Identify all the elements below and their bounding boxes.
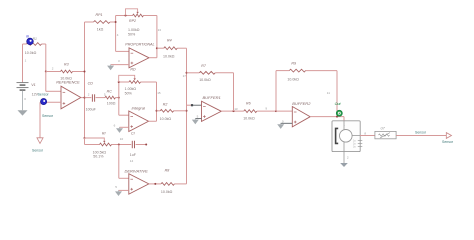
junction bottom branch [84,137,86,139]
junction RP1 [115,21,117,23]
capacitor CD [91,94,93,101]
heater top pin [343,121,345,130]
heater bracket [336,128,339,143]
svg-text:10.0kΩ: 10.0kΩ [160,117,172,121]
node junction 1 [45,71,47,73]
junction node 10 [118,144,120,146]
svg-text:13: 13 [158,28,162,32]
svg-text:15: 15 [157,91,161,95]
junction R2 line [156,110,158,112]
junction buffer2 input [275,110,277,112]
off-page connector Sensor right arrow [446,133,451,139]
op-amp BUFFER2 [292,107,310,127]
wire reference plus input [40,101,61,103]
potentiometer RI [100,143,112,146]
resistor RC [105,96,115,99]
svg-text:50.1%: 50.1% [93,155,104,159]
ground buffer1 [194,119,196,120]
svg-text:11: 11 [327,91,330,95]
svg-text:U7: U7 [381,127,385,131]
wire derivative output [149,183,161,185]
wire R9 left vertical [275,71,277,112]
resistor R1 [27,43,42,46]
svg-text:CI: CI [131,132,135,136]
wire battery bottom [22,91,24,111]
svg-text:R4: R4 [167,38,172,42]
wire RD right vertical [156,82,158,121]
wire U7 to sensor arrow [396,135,446,137]
svg-text:R9: R9 [291,62,296,66]
op-amp Integral [129,111,149,132]
resistor R3 [61,70,73,73]
wire buffer1 output [221,110,244,112]
junction out node [336,116,338,118]
svg-text:R2: R2 [163,102,168,106]
svg-text:BUFFER2: BUFFER2 [292,101,311,106]
wire sensor down [39,102,41,137]
ground derivative [118,190,120,191]
wire RC to junction [115,97,118,99]
op-amp PROPORTIONAL [129,48,149,68]
wire heater to U7 node 8 [360,135,375,137]
wire RD line [119,81,129,83]
svg-text:Sensor: Sensor [415,131,427,135]
wire buffer1 minus [187,104,193,106]
junction derivative output [154,183,156,185]
thermistor U7 body [379,134,390,136]
resistor R4 [164,47,177,50]
svg-text:10: 10 [120,137,124,141]
svg-text:Sensor: Sensor [38,92,50,96]
svg-text:Sensor: Sensor [442,140,454,144]
wire integral input vertical [118,82,120,115]
svg-text:10.0kΩ: 10.0kΩ [287,77,299,81]
wire R9 line [276,70,289,72]
ground prop [110,65,112,66]
svg-text:1kΩ: 1kΩ [97,27,104,31]
junction R3-rail [84,71,86,73]
svg-text:RP1: RP1 [96,13,103,17]
junction R2 tap [186,110,188,112]
junction R4 tap [156,47,158,49]
svg-text:1uF: 1uF [130,153,137,157]
svg-text:14: 14 [130,159,134,163]
svg-text:In: In [26,34,29,38]
resistor R8 [161,183,174,186]
junction CI stub end [145,144,147,146]
wire integral output [149,120,157,122]
svg-text:10.0kΩ: 10.0kΩ [161,190,173,194]
svg-text:RC: RC [107,89,113,93]
junction R7 feedback right [233,110,235,112]
wire buffer2 output [310,116,344,118]
resistor RP1 [94,21,111,24]
wire derivative input vertical [118,145,120,179]
svg-text:R6: R6 [246,102,251,106]
resistor R9 [289,69,305,72]
wire R7 feedback vertical [233,73,235,111]
wire CI stub [136,144,147,146]
wire R9 right vertical node 11 [336,71,338,117]
wire bottom line [85,144,100,146]
op-amp U REFERENCE [61,86,81,109]
svg-text:DERIVATIVE: DERIVATIVE [125,168,149,173]
svg-text:R1: R1 [33,37,37,41]
junction integral input [118,97,120,99]
svg-text:50%: 50% [128,32,136,36]
potentiometer RP2 [133,14,144,17]
resistor R7 [199,71,215,74]
junction R7 tap [186,72,188,74]
wire R3 line [46,71,61,73]
svg-text:Sensor: Sensor [32,149,44,153]
off-page connector Sensor down arrow [37,138,43,144]
wire RP2 right vertical [156,16,158,58]
wire buffer1 plus [195,118,201,120]
wire integral plus [120,126,129,128]
wire prop plus [111,64,129,66]
wire derivative plus [119,189,129,191]
wire into heater top [343,117,345,121]
wire battery top [22,44,24,82]
heater component box A1 [332,121,360,152]
op-amp BUFFER1 [202,101,222,121]
svg-text:RI: RI [102,131,106,135]
resistor R2 [160,109,173,112]
probe Out (green) [336,110,342,116]
wire R2 line [157,110,161,112]
wire prop minus [116,50,129,52]
svg-text:10.0kΩ: 10.0kΩ [199,78,211,82]
heater circle [340,130,353,143]
wire prop input vertical [115,16,117,52]
battery V1 [17,82,29,84]
wire R7 line [187,72,200,74]
svg-text:17: 17 [183,74,187,78]
buffer1 minus pin [192,104,202,106]
heater right pin [352,135,360,137]
probe In (blue) [27,38,34,45]
wire reference output [81,97,85,99]
svg-text:REFERENCE: REFERENCE [56,81,80,85]
wire R4 line [157,47,164,49]
wire reference minus input [45,72,47,92]
svg-text:10.0kΩ: 10.0kΩ [163,54,175,58]
svg-text:10.0kΩ: 10.0kΩ [243,117,255,121]
wire rail to CD [85,97,92,99]
wire R1 top line [23,43,27,45]
summing vertical node 17 [186,48,188,184]
svg-text:13: 13 [234,107,238,111]
svg-text:10.0kΩ: 10.0kΩ [25,51,37,55]
capacitor CI [131,141,133,148]
svg-text:CD: CD [88,82,94,86]
ground main arrow [18,110,28,115]
svg-text:Sensor: Sensor [42,114,54,118]
main left vertical rail [84,22,86,145]
wire RP2 line [116,15,133,17]
svg-text:RP2: RP2 [129,19,136,23]
potentiometer RD [129,81,141,84]
svg-text:Integral: Integral [132,106,145,111]
probe Sensor (blue) [41,99,47,105]
wire prop output [149,57,157,59]
svg-text:BUFFER1: BUFFER1 [203,95,221,100]
svg-text:R3: R3 [64,63,69,67]
resistor R6 [244,110,257,113]
wire RP1 line [85,21,94,23]
ground integral [119,127,121,128]
svg-text:V1: V1 [31,83,35,87]
heater ground arrow [340,163,348,167]
heater aux pins [358,140,363,142]
svg-text:R8: R8 [165,168,170,172]
junction output rail [84,97,86,99]
op-amp DERIVATIVE [129,174,149,194]
wire CD to RC [96,97,105,99]
svg-text:1.00kΩ: 1.00kΩ [128,28,140,32]
wire buffer2 plus [281,122,293,124]
svg-text:100Ω: 100Ω [107,101,116,105]
svg-text:Out: Out [335,102,342,106]
thermistor U7 box [375,131,396,138]
svg-text:PROPORTIONAL: PROPORTIONAL [125,42,154,46]
svg-text:100uF: 100uF [86,107,97,111]
svg-text:50%: 50% [125,91,133,95]
svg-text:RD: RD [130,68,136,72]
wire buffer2 minus [276,110,292,112]
heater bottom pin [343,142,345,151]
ground buffer2 [280,123,282,124]
wire node1 vertical [45,44,47,72]
